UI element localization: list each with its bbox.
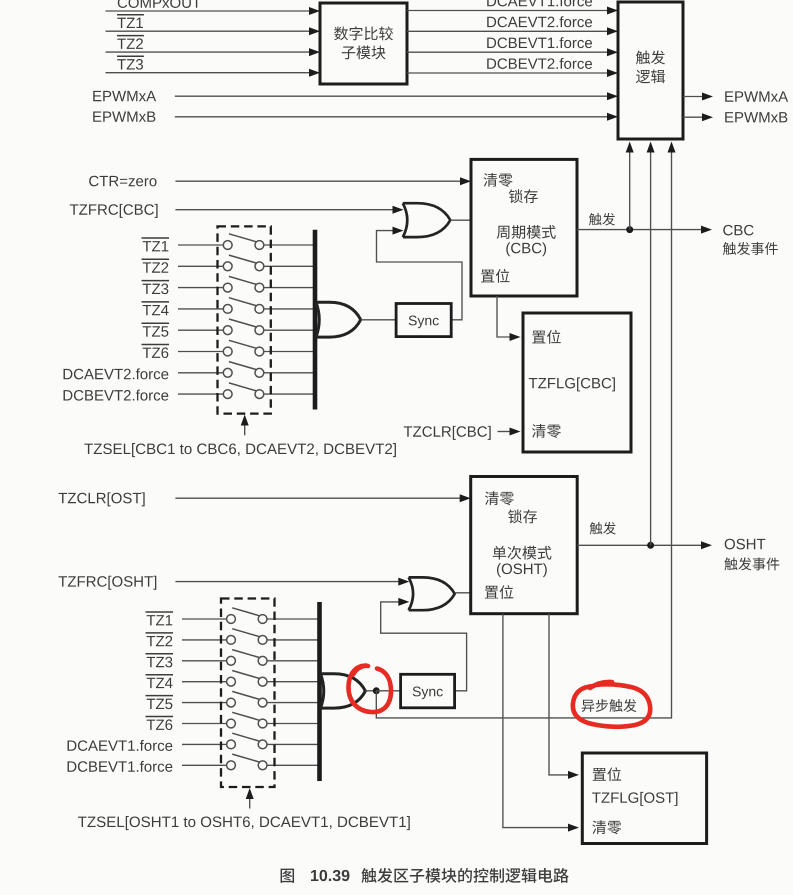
wire EPWMxA in bbox=[175, 95, 609, 97]
switch SW-OST8 DCBEVT1.force bbox=[182, 764, 227, 766]
annotation red circle junction bbox=[348, 666, 391, 712]
label TZ1 bbox=[117, 18, 125, 28]
label TZ2 OSHT bbox=[147, 636, 155, 646]
label TZFRC[OSHT] bbox=[59, 576, 67, 586]
latch OSHT U8 bbox=[471, 477, 578, 614]
wire TZ2 input bbox=[106, 51, 312, 53]
switch SW-CBC5 TZ5 bbox=[178, 329, 223, 331]
wire TZSEL OSHT select arrow bbox=[249, 798, 251, 809]
wire OSHT latch to TZFLG[OST] clear bbox=[503, 614, 570, 828]
wire CTR=zero to CBC latch clear bbox=[175, 180, 462, 182]
wire sync feedback OSHT bbox=[381, 602, 467, 691]
wire DCBEVT2.force bbox=[407, 72, 609, 74]
label TZ3 CBC bbox=[143, 284, 151, 294]
wire DCAEVT1.force bbox=[407, 10, 609, 12]
caption title bbox=[361, 868, 376, 883]
switch bank CBC dashed box bbox=[218, 226, 271, 413]
label TZ5 CBC bbox=[143, 326, 151, 336]
switch SW-CBC4 TZ4 bbox=[178, 308, 223, 310]
label TZ4 CBC bbox=[143, 305, 151, 315]
caption figure number bbox=[281, 869, 294, 883]
label OSHT event bbox=[725, 539, 735, 550]
wire DCAEVT2.force bbox=[407, 30, 609, 32]
or-gate U6 OSHT bbox=[409, 577, 455, 610]
digital compare submodule U1 bbox=[320, 3, 407, 84]
wire OSHT junction to trigger logic bbox=[650, 152, 652, 546]
label TZ6 OSHT bbox=[147, 720, 155, 730]
label DCAEVT2.force bbox=[487, 17, 496, 27]
label CBC event bbox=[723, 225, 732, 236]
node CBC trigger junction bbox=[626, 226, 633, 233]
or-gate U3 bbox=[403, 203, 451, 237]
bus bar CBC bbox=[313, 230, 318, 410]
label TZFRC[CBC] bbox=[70, 204, 78, 214]
wire TZ3 input bbox=[106, 72, 312, 74]
flag register TZFLG[OST] bbox=[582, 753, 706, 844]
wire TZCLR[OST] to OSHT latch clear bbox=[175, 497, 461, 499]
wire async trigger bbox=[376, 152, 671, 718]
switch SW-OST6 TZ6 bbox=[182, 723, 227, 725]
label DCBEVT2.force bbox=[487, 58, 496, 68]
switch SW-OST5 TZ5 bbox=[182, 702, 227, 704]
wire TZFRC[OSHT] to OR U6 bbox=[175, 581, 400, 583]
label OSHT trigger bbox=[590, 522, 603, 534]
label TZ4 OSHT bbox=[147, 678, 155, 688]
switch bank OSHT dashed box bbox=[221, 599, 275, 788]
label DCAEVT2.force CBC bbox=[64, 369, 73, 379]
switch SW-CBC8 DCBEVT2.force bbox=[178, 393, 223, 395]
wire CBC junction to trigger logic bbox=[629, 152, 631, 230]
switch SW-CBC2 TZ2 bbox=[178, 265, 223, 267]
label DCAEVT1.force OSHT bbox=[68, 740, 77, 750]
latch CBC U5 bbox=[471, 159, 577, 296]
label EPWMxB out bbox=[725, 112, 733, 122]
wire TZSEL CBC select arrow bbox=[244, 425, 246, 436]
wire sync feedback CBC bbox=[377, 231, 463, 320]
wire TZ1 input bbox=[106, 30, 312, 32]
label DCBEVT1.force OSHT bbox=[68, 761, 77, 771]
switch SW-OST7 DCAEVT1.force bbox=[182, 743, 227, 745]
switch SW-CBC3 TZ3 bbox=[178, 287, 223, 289]
wire U4 out to Sync bbox=[361, 319, 396, 321]
label TZSEL CBC bbox=[84, 444, 93, 454]
label DCAEVT1.force bbox=[487, 0, 496, 6]
label TZCLR[OST] bbox=[59, 493, 67, 503]
label TZ1 CBC bbox=[143, 241, 151, 251]
node OSHT trigger junction bbox=[647, 542, 654, 549]
sync block OSHT bbox=[401, 674, 455, 708]
label EPWMxB in bbox=[93, 111, 101, 121]
switch SW-OST4 TZ4 bbox=[182, 681, 227, 683]
label TZ6 CBC bbox=[143, 348, 151, 358]
label DCBEVT2.force CBC bbox=[64, 390, 73, 400]
sync block CBC bbox=[396, 304, 451, 337]
label CBC trigger bbox=[589, 213, 602, 225]
label TZ5 OSHT bbox=[147, 699, 155, 709]
label TZ3 OSHT bbox=[147, 657, 155, 667]
switch SW-CBC1 TZ1 bbox=[178, 244, 223, 246]
switch SW-CBC7 DCAEVT2.force bbox=[178, 372, 223, 374]
label CTR=zero bbox=[89, 176, 98, 187]
label TZSEL OSHT bbox=[78, 817, 87, 827]
node async junction bbox=[373, 687, 380, 694]
wire EPWMxB in bbox=[175, 116, 609, 118]
wire junction to Sync bbox=[376, 690, 400, 692]
wire U6 out to OSHT latch set bbox=[455, 592, 471, 594]
wire CBC trigger out bbox=[577, 229, 703, 231]
wire TZCLR[CBC] to flag clear bbox=[498, 431, 512, 433]
label async trigger bbox=[582, 700, 595, 712]
label TZ1 OSHT bbox=[147, 615, 155, 625]
switch SW-CBC6 TZ6 bbox=[178, 351, 223, 353]
bus bar OSHT bbox=[317, 602, 322, 781]
label DCBEVT1.force bbox=[487, 38, 496, 48]
label COMPxOUT bbox=[118, 0, 127, 8]
label TZCLR[CBC] bbox=[404, 426, 412, 436]
wire U3 out to CBC latch set bbox=[450, 219, 471, 221]
trigger logic U2 bbox=[618, 2, 683, 139]
wire COMPxOUT input bbox=[106, 10, 312, 12]
wire TZFRC[CBC] to OR U3 bbox=[175, 209, 394, 211]
label EPWMxA in bbox=[93, 91, 101, 101]
wire EPWMxB out bbox=[683, 116, 704, 118]
switch SW-OST2 TZ2 bbox=[182, 639, 227, 641]
label TZ2 bbox=[117, 39, 125, 49]
wire OSHT latch to TZFLG[OST] set bbox=[549, 614, 570, 775]
wire DCBEVT1.force bbox=[407, 51, 609, 53]
annotation red circle async label bbox=[573, 684, 650, 726]
wire U7 out bbox=[365, 690, 376, 692]
switch SW-OST3 TZ3 bbox=[182, 660, 227, 662]
wire EPWMxA out bbox=[683, 96, 704, 98]
switch SW-OST1 TZ1 bbox=[182, 618, 227, 620]
or-gate U7 OSHT bbox=[321, 674, 366, 708]
or-gate U4 CBC bbox=[316, 302, 361, 337]
flag register TZFLG[CBC] bbox=[523, 313, 631, 452]
wire OSHT trigger out bbox=[577, 544, 703, 546]
label TZ2 CBC bbox=[143, 262, 151, 272]
label TZ3 bbox=[117, 59, 125, 69]
label EPWMxA out bbox=[725, 91, 733, 101]
wire CBC latch to TZFLG set bbox=[497, 296, 511, 337]
